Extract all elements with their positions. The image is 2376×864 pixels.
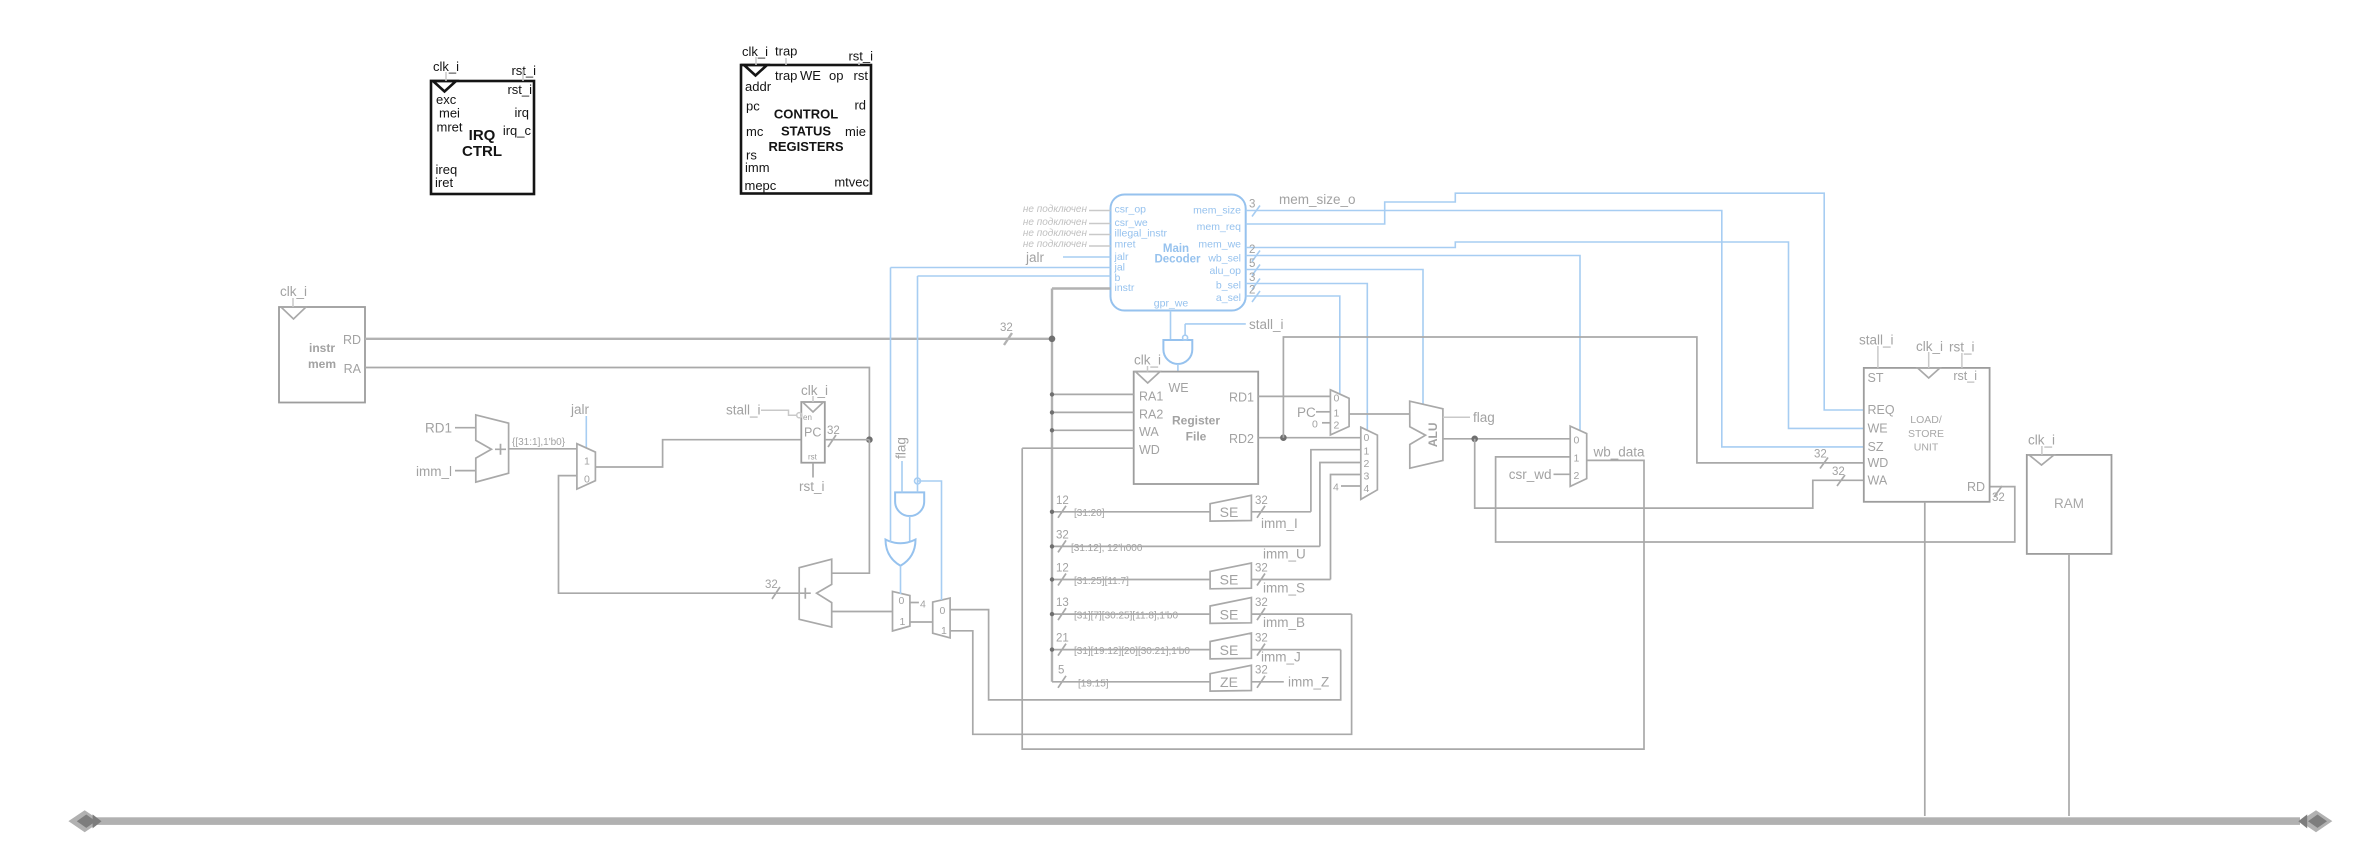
wire WA input [1052,429,1134,431]
svg-text:RA2: RA2 [1139,408,1163,422]
label 32 + slash on LSU RD [1994,486,2002,497]
svg-text:[31][7][30:25][11:8],1'b0: [31][7][30:25][11:8],1'b0 [1074,611,1178,622]
svg-text:imm_S: imm_S [1263,581,1305,596]
wire PC junction down to adder A2 input A [832,440,870,574]
svg-text:3: 3 [1364,471,1370,483]
wire rst_i stub of CSR [858,62,860,65]
svg-text:IRQ: IRQ [469,127,496,144]
svg-text:WE: WE [800,68,821,83]
wire imm_l into adder A1 [455,470,476,472]
svg-text:12: 12 [1056,495,1069,507]
svg-text:mem_size: mem_size [1193,205,1241,217]
svg-text:12: 12 [1056,563,1069,575]
wire mem_req to LSU REQ [1246,193,1864,410]
block Main Decoder (highlighted) [1111,195,1246,311]
wire b branch to mux M3 select [918,481,942,600]
svg-text:[31:20]: [31:20] [1074,508,1105,519]
svg-text:RD1: RD1 [1229,391,1254,405]
svg-text:32: 32 [1000,322,1013,334]
svg-text:1: 1 [1334,408,1340,420]
svg-text:RD: RD [343,333,361,347]
svg-text:3: 3 [1249,199,1255,211]
svg-text:mepc: mepc [745,178,777,193]
wire imm_I to mux M5 input 1 [1311,450,1361,512]
svg-text:gpr_we: gpr_we [1154,298,1189,310]
svg-text:irq: irq [515,105,529,120]
svg-text:imm_I: imm_I [1261,516,1298,531]
svg-text:UNIT: UNIT [1914,442,1939,454]
svg-text:[31:25][11:7]: [31:25][11:7] [1074,576,1129,587]
svg-text:imm_U: imm_U [1263,547,1306,562]
svg-text:RA: RA [344,362,362,376]
adder A2 (next PC, mirrored) [799,559,832,627]
wire ALU result to writeback mux input 0 [1443,438,1570,440]
wire RD2 to mux M5 input 0 [1258,437,1361,439]
svg-text:ZE: ZE [1220,674,1238,690]
row imm_S [1050,563,1331,596]
svg-text:RD: RD [1967,480,1985,494]
wire gate G1 output to gate G2 [909,516,911,541]
row imm_B [1050,597,1352,630]
svg-text:WA: WA [1868,474,1888,488]
wire jal into decoder [891,267,1111,269]
node PC output junction [866,436,873,443]
wire imm_S to mux M5 input 3 [1331,475,1361,580]
svg-text:clk_i: clk_i [433,59,459,74]
svg-text:0: 0 [1574,435,1580,447]
svg-text:1: 1 [900,616,906,628]
wire clk stub Register File [1147,366,1149,372]
svg-text:stall_i: stall_i [1859,333,1894,348]
wire csr_wd stub into mux M6 input 2 [1554,473,1571,475]
svg-text:не подключен: не подключен [1023,239,1088,250]
svg-text:mtvec: mtvec [834,175,869,190]
wire b_sel to mux M5 select [1246,284,1368,431]
svg-text:mret: mret [437,120,463,135]
wire RA1 input [1052,393,1134,395]
wire rst_i stub of IRQ CTRL [522,70,524,81]
wire WD input from wb_data loop [1022,447,1133,449]
wire LSU RD loop into mux M6 input 1 [1496,457,2015,542]
svg-text:21: 21 [1056,633,1069,645]
wire mux M1 input 0 from PC adder output [559,476,800,594]
wire mem_we to LSU WE [1246,242,1864,428]
svg-text:csr_wd: csr_wd [1509,467,1552,482]
constant 4 into mux M2 input 0 [910,602,919,604]
svg-text:32: 32 [1255,633,1268,645]
svg-text:File: File [1186,430,1207,444]
svg-text:rst_i: rst_i [1953,369,1977,383]
svg-text:3: 3 [1249,272,1255,284]
row imm_J [1050,633,1341,665]
svg-text:rst_i: rst_i [848,49,873,64]
svg-text:imm_Z: imm_Z [1288,675,1329,690]
wire RA2 input [1052,411,1134,413]
component ALU [1410,401,1443,468]
gate G3 AND (gpr_we & !stall_i) [1163,340,1192,364]
row imm_Z [1052,665,1329,692]
node RD2 branch [1280,434,1287,441]
svg-text:4: 4 [1333,482,1339,494]
wire jal into gate G2 left input [890,268,892,543]
svg-text:rst: rst [854,68,869,83]
svg-text:instr: instr [1115,282,1135,294]
svg-text:wb_data: wb_data [1593,445,1646,460]
svg-text:flag: flag [894,437,909,459]
wire clk_i stub instr mem [292,298,294,307]
svg-text:mem_we: mem_we [1198,239,1241,251]
svg-text:csr_op: csr_op [1115,204,1147,216]
svg-text:не подключен: не подключен [1023,204,1088,215]
svg-text:STATUS: STATUS [781,124,831,139]
wire mux M2 output to adder A2 input B [832,611,893,613]
mux M3 (imm_J / imm_B mux, mirrored) [933,598,950,638]
svg-text:0: 0 [940,605,946,617]
svg-text:32: 32 [1992,492,2005,504]
svg-text:mem_req: mem_req [1197,221,1242,233]
svg-text:[31][19:12][20][30:21],1'b0: [31][19:12][20][30:21],1'b0 [1074,646,1190,657]
node instr/RD junction [1049,336,1056,343]
svg-text:WA: WA [1139,425,1159,439]
svg-text:32: 32 [765,579,778,591]
svg-text:stall_i: stall_i [1249,317,1284,332]
svg-text:32: 32 [1255,597,1268,609]
svg-text:jalr: jalr [1025,250,1045,265]
svg-text:rst_i: rst_i [799,479,825,494]
wire flag output of ALU [1443,416,1470,418]
mux M1 (jalr mux) [577,444,596,489]
wire imm_B loop into mux M3 input 1 [950,614,1352,734]
block LOAD/STORE UNIT [1864,368,1990,502]
svg-text:clk_i: clk_i [1134,353,1161,368]
svg-text:trap: trap [775,44,797,59]
wire mux M3 output to mux M2 input 1 [910,621,933,623]
svg-text:trap: trap [775,68,797,83]
wire PC Q output [825,439,870,441]
svg-text:0: 0 [1364,432,1370,444]
svg-text:stall_i: stall_i [726,403,761,418]
wire RA input of instr mem [365,368,869,440]
svg-text:REQ: REQ [1868,403,1895,417]
svg-text:0: 0 [584,474,590,486]
svg-text:clk_i: clk_i [280,284,307,299]
svg-text:REGISTERS: REGISTERS [768,139,843,154]
svg-text:32: 32 [827,425,840,437]
svg-text:LOAD/: LOAD/ [1910,414,1942,426]
svg-text:SE: SE [1220,606,1239,622]
svg-text:WE: WE [1868,422,1888,436]
svg-text:op: op [829,68,843,83]
svg-text:1: 1 [584,456,590,468]
svg-text:PC: PC [804,426,821,440]
svg-text:wb_sel: wb_sel [1207,253,1241,265]
mux M6 (writeback mux) [1570,426,1587,486]
wire instr bus vertical [1051,289,1053,682]
svg-text:{[31:1],1'b0}: {[31:1],1'b0} [512,437,566,448]
wire gate G3 output to Register File WE [1177,364,1179,372]
svg-text:RAM: RAM [2054,496,2084,511]
wire gpr_we to gate G3 [1170,311,1172,341]
wire mem_size to LSU SZ [1246,211,1864,447]
svg-text:clk_i: clk_i [1916,339,1943,354]
svg-text:[31:12], 12'h000: [31:12], 12'h000 [1071,543,1143,554]
svg-text:en: en [803,413,812,422]
svg-text:clk_i: clk_i [801,383,828,398]
wire stall_i into gate G3 (inverted) [1184,324,1186,335]
register PC [801,402,825,463]
svg-text:iret: iret [435,175,453,190]
wire clk_i stub of IRQ CTRL [445,72,447,81]
wire a_sel to mux M4 select [1246,296,1340,394]
svg-text:addr: addr [745,79,772,94]
system bus bar [68,810,2332,832]
svg-text:1: 1 [1364,446,1370,458]
svg-text:WE: WE [1169,381,1189,395]
wire LSU bottom to system bus [1924,502,1926,816]
block CONTROL STATUS REGISTERS U11 [741,44,873,194]
svg-text:0: 0 [1312,419,1318,431]
svg-text:flag: flag [1473,410,1495,425]
svg-text:не подключен: не подключен [1023,228,1088,239]
wire ALU result to LSU WA [1475,439,1864,508]
wire wb_sel to writeback mux select [1246,256,1580,431]
svg-text:imm_B: imm_B [1263,615,1305,630]
svg-text:STORE: STORE [1908,428,1944,440]
wire jalr select into mux M1 [585,416,587,449]
wire RD1 to mux M4 input 0 [1258,395,1330,397]
svg-text:pc: pc [746,99,760,114]
svg-text:a_sel: a_sel [1216,292,1241,304]
svg-text:Register: Register [1172,414,1220,428]
wire mux M4 output to ALU input A [1349,413,1410,415]
block IRQ CTRL U10 [431,59,536,194]
gate G1 AND (flag & b), pointing down [895,492,924,516]
svg-text:32: 32 [1832,466,1845,478]
node ALU result junction [1471,436,1478,443]
svg-text:alu_op: alu_op [1209,265,1241,277]
svg-text:1: 1 [941,625,947,637]
svg-text:WD: WD [1139,443,1160,457]
wire imm_U to mux M5 input 2 [1320,463,1361,547]
wire RD2 store-data to LSU WD [1283,337,1863,463]
block instr mem [279,284,365,403]
svg-text:mem_size_o: mem_size_o [1279,192,1356,207]
svg-text:b_sel: b_sel [1216,280,1241,292]
mux M2 (PC step mux, mirrored inputs right) [893,591,910,631]
svg-text:imm_J: imm_J [1261,650,1301,665]
wire flag into gate G1 left input [901,461,903,492]
svg-text:1: 1 [1574,453,1580,465]
adder A1 (RD1 + imm_l) [476,415,509,482]
svg-text:mei: mei [439,106,460,121]
wire rst_i stub below PC [812,463,814,478]
svg-text:4: 4 [1364,483,1370,495]
row imm_U [1050,530,1320,562]
mux M4 (ALU operand A) [1330,390,1349,435]
svg-text:clk_i: clk_i [2028,433,2055,448]
svg-text:32: 32 [1255,563,1268,575]
svg-text:32: 32 [1255,665,1268,677]
svg-text:RA1: RA1 [1139,390,1163,404]
wire jalr into decoder [1063,256,1111,258]
svg-text:13: 13 [1056,597,1069,609]
svg-text:instr: instr [309,341,335,355]
svg-text:jalr: jalr [570,402,590,417]
svg-text:2: 2 [1574,470,1580,482]
svg-text:2: 2 [1249,285,1255,297]
gate G2 OR (jal | branch), pointing down [886,540,916,566]
svg-text:CONTROL: CONTROL [774,107,838,122]
svg-text:CTRL: CTRL [462,143,502,160]
svg-text:WD: WD [1868,456,1889,470]
wire wb_data output loop to RF WD [1022,448,1644,749]
svg-text:clk_i: clk_i [742,44,768,59]
mux M5 (ALU operand B) [1361,427,1378,499]
wire alu_op to ALU select [1246,270,1423,405]
svg-text:SE: SE [1220,504,1239,520]
svg-text:SZ: SZ [1868,440,1884,454]
wire b into gate G1 right input [917,276,919,492]
svg-text:32: 32 [1814,449,1827,461]
svg-text:rst_i: rst_i [511,63,536,78]
svg-text:2: 2 [1249,244,1255,256]
wire adder A1 output to jalr mux input 1 [509,448,577,450]
row imm_I: slash 12, slice label, SE, 32, imm_I [1050,495,1311,531]
svg-text:2: 2 [1364,458,1370,470]
wire stall_i to PC en (with bubble) [761,410,797,415]
svg-text:rd: rd [854,98,866,113]
svg-text:ST: ST [1868,371,1884,385]
svg-text:5: 5 [1058,665,1064,677]
wire clk_i stub of CSR [755,57,757,65]
svg-text:mc: mc [746,124,764,139]
wire b into decoder [918,275,1111,277]
svg-text:0: 0 [1334,393,1340,405]
svg-text:SE: SE [1220,572,1239,588]
block RAM [2027,455,2112,554]
svg-text:ALU: ALU [1426,422,1440,447]
wire trap stub of CSR [785,58,787,65]
svg-text:SE: SE [1220,642,1239,658]
svg-text:RD1: RD1 [425,421,452,436]
svg-text:mem: mem [308,357,336,371]
svg-text:не подключен: не подключен [1023,217,1088,228]
wire RD1 into adder A1 [455,427,476,429]
svg-text:imm: imm [745,160,770,175]
wire bus RD instr mem (32-bit) [365,338,1052,340]
svg-text:mie: mie [845,124,866,139]
svg-text:irq_c: irq_c [503,123,532,138]
svg-text:4: 4 [920,599,926,611]
svg-text:32: 32 [1255,495,1268,507]
svg-text:32: 32 [1056,530,1069,542]
svg-text:mret: mret [1115,239,1136,251]
svg-text:RD2: RD2 [1229,432,1254,446]
svg-text:Decoder: Decoder [1154,254,1201,266]
wire RAM bottom to system bus [2068,554,2070,816]
svg-text:rst: rst [808,453,818,462]
wire mux M1 output to PC register D [595,440,801,467]
svg-text:5: 5 [1249,258,1255,270]
block Register File [1134,372,1259,484]
node b branch junction [915,478,921,484]
svg-text:imm_l: imm_l [416,464,452,479]
wire imm_J loop into mux M3 input 0 [950,610,1341,700]
svg-text:0: 0 [899,595,905,607]
svg-text:[19:15]: [19:15] [1078,679,1109,690]
wire gate G2 output to mux M2 select [900,566,902,594]
svg-text:2: 2 [1334,420,1340,432]
svg-text:rst_i: rst_i [507,82,532,97]
wire instr bus into decoder [1052,287,1111,289]
wire clk stub PC [812,396,814,402]
svg-text:rst_i: rst_i [1949,340,1975,355]
